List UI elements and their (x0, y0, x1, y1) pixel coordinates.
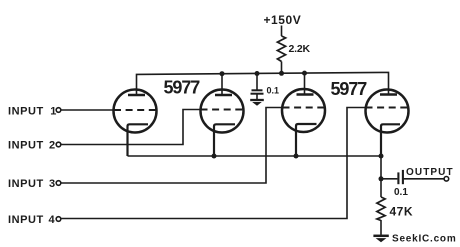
tube V4 5977 (366, 90, 409, 157)
wire capacitor C1 to ground (256, 95, 258, 100)
wire V3 plate lead (304, 73, 306, 94)
wire resistor R1 to plate bus (281, 62, 283, 74)
terminal OUTPUT (444, 177, 449, 182)
svg-text:2.2K: 2.2K (289, 43, 311, 55)
junction dots (212, 71, 384, 182)
node R1 / bus (279, 71, 284, 76)
svg-text:0.1: 0.1 (394, 187, 408, 198)
ground (bypass capacitor) (250, 100, 264, 106)
wire +150V lead (281, 26, 283, 37)
svg-text:INPUT: INPUT (8, 105, 44, 117)
wire INPUT 3 to V3 grid (61, 108, 284, 184)
wire output node to resistor R2 (380, 179, 382, 197)
wire resistor R2 to ground (380, 220, 382, 235)
svg-text:SeekIC.com: SeekIC.com (392, 233, 457, 244)
svg-text:5977: 5977 (331, 79, 368, 99)
wire plate bus B+ (137, 72, 389, 95)
wire bus to capacitor C1 (256, 74, 258, 90)
tube V1 5977 (114, 90, 157, 157)
wire INPUT 1 to V1 grid (61, 109, 115, 111)
capacitor C2 0.1 (output coupling) (398, 170, 403, 184)
resistor R1 2.2K (277, 36, 285, 62)
node V3 plate / bus (302, 71, 307, 76)
svg-text:4: 4 (49, 214, 56, 226)
svg-text:3: 3 (49, 178, 55, 190)
svg-text:0.1: 0.1 (267, 86, 280, 96)
svg-text:1: 1 (50, 105, 56, 117)
svg-text:2: 2 (49, 139, 55, 151)
terminal INPUT 4 (56, 217, 61, 222)
capacitor C1 0.1 (bypass) (251, 90, 264, 93)
svg-text:OUTPUT: OUTPUT (406, 167, 454, 178)
svg-text:+150V: +150V (264, 13, 302, 27)
node C1 / bus (255, 71, 260, 76)
terminal INPUT 2 (56, 142, 61, 147)
tube V2 5977 (201, 90, 244, 157)
wire cathode bus (128, 155, 382, 157)
ground (output resistor) (373, 236, 388, 242)
wire V2 plate lead (221, 74, 223, 95)
svg-text:5977: 5977 (164, 77, 201, 97)
svg-text:INPUT: INPUT (8, 139, 44, 151)
resistor R2 47K (377, 197, 385, 221)
wire INPUT 4 to V4 grid (61, 108, 367, 219)
node V2 cathode / bus (212, 154, 217, 159)
node V2 plate / bus (220, 71, 225, 76)
terminal INPUT 3 (56, 181, 61, 186)
svg-text:INPUT: INPUT (8, 214, 44, 226)
wire cathode bus to output node (380, 156, 382, 179)
svg-text:INPUT: INPUT (8, 178, 44, 190)
node V3 cathode / bus (294, 154, 299, 159)
tube V3 5977 (282, 89, 325, 156)
svg-text:47K: 47K (390, 204, 414, 218)
terminal INPUT 1 (56, 108, 61, 113)
wire INPUT 2 to V2 grid (61, 110, 201, 145)
node output (379, 176, 384, 181)
wire capacitor to output terminal (404, 178, 445, 180)
node V4 cathode / bus (379, 154, 384, 159)
wire output node to capacitor (381, 178, 397, 180)
